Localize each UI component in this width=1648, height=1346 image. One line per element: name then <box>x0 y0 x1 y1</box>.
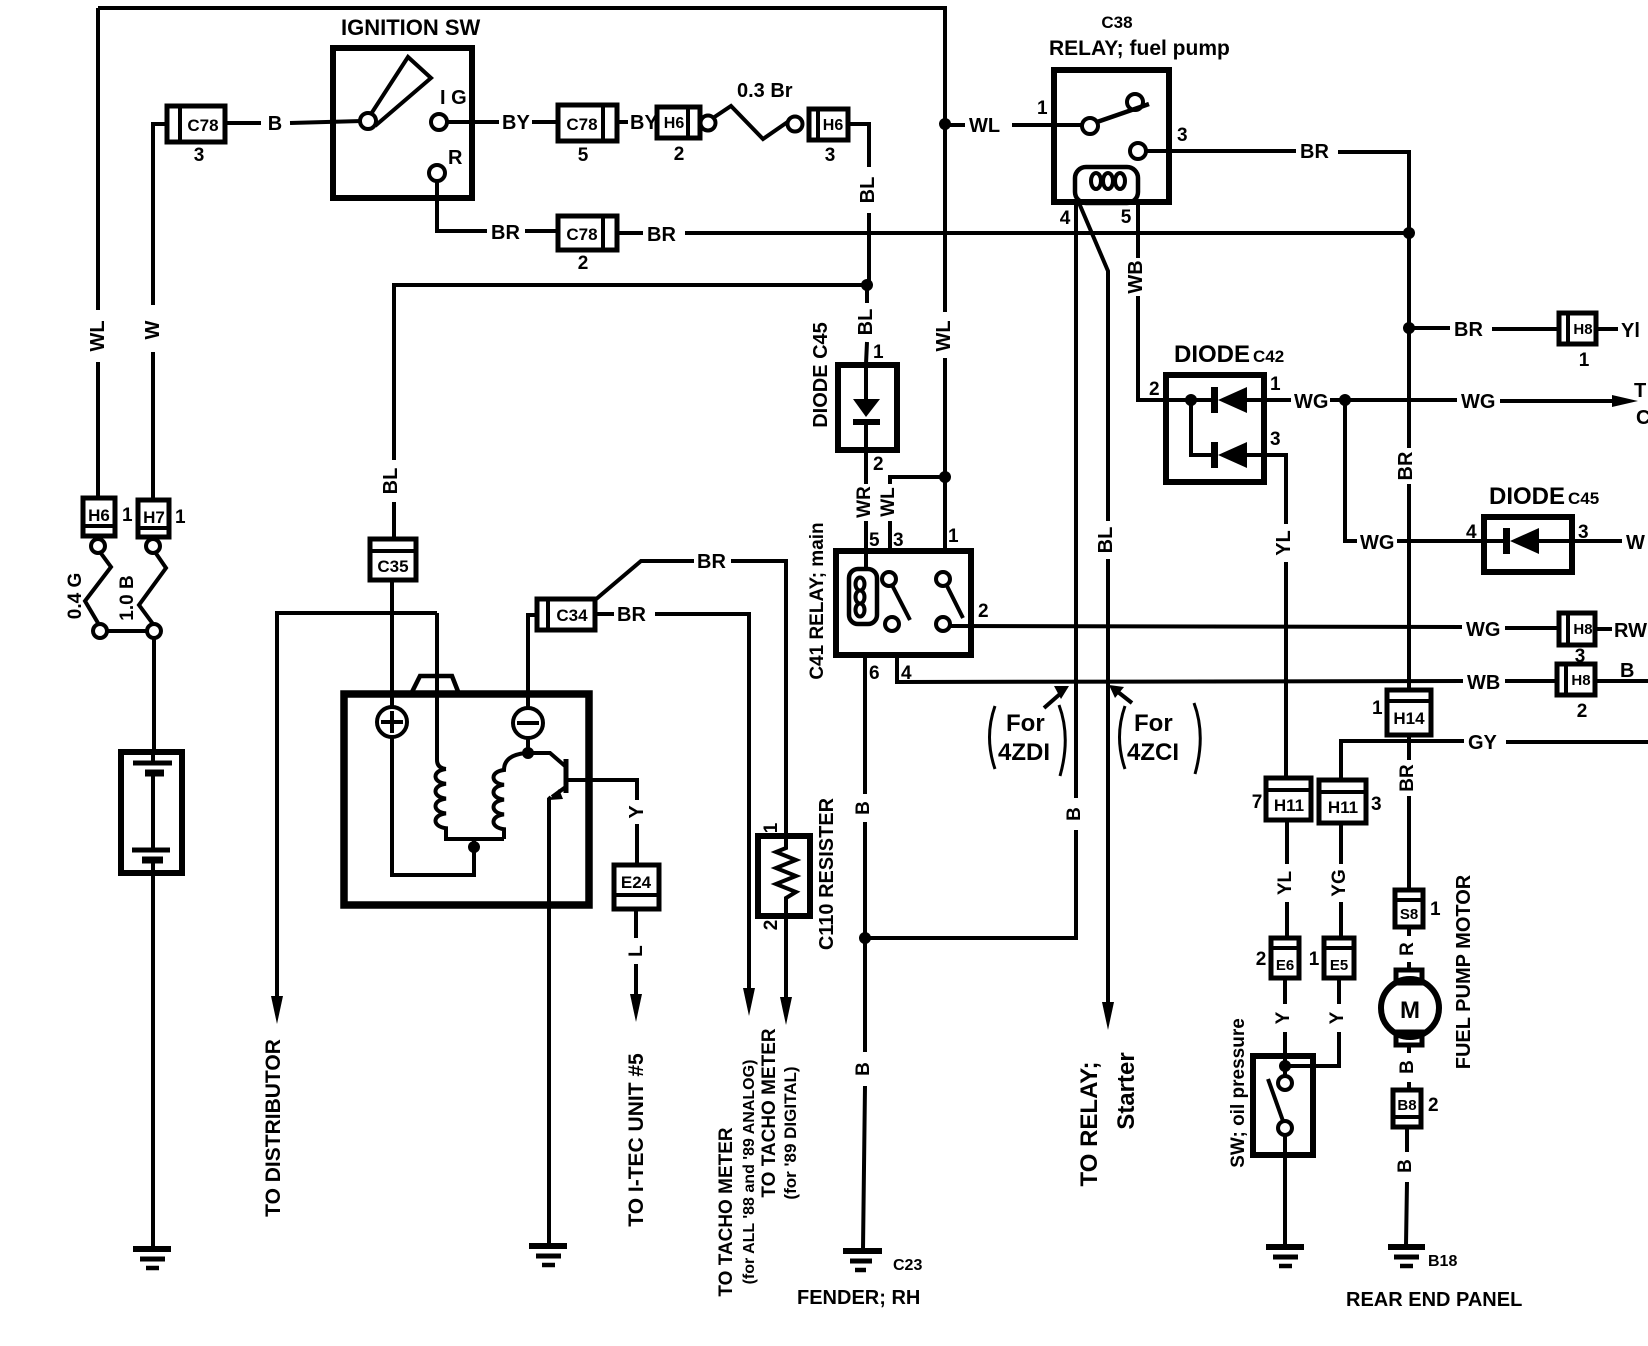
svg-text:1: 1 <box>873 342 884 363</box>
wire WG from C42 pin 1 <box>1264 398 1345 402</box>
pin 6 label of C41 <box>869 663 880 684</box>
diode symbol (cathode down) <box>853 365 880 450</box>
svg-text:1: 1 <box>175 507 186 528</box>
ignition switch title <box>341 15 481 40</box>
junction coil centre tap <box>468 841 480 853</box>
svg-text:3: 3 <box>194 145 205 166</box>
junction B with 4ZDI branch <box>859 932 871 944</box>
svg-text:E24: E24 <box>621 873 652 892</box>
wire from R contact down to BR row <box>437 181 487 231</box>
connector H6 (left, pin 1) <box>83 498 115 536</box>
svg-text:1.0 B: 1.0 B <box>117 575 138 620</box>
svg-text:3: 3 <box>1270 429 1281 450</box>
label Y <box>1327 1011 1348 1024</box>
label BY <box>502 112 530 134</box>
svg-text:C42: C42 <box>1253 347 1284 366</box>
relay C38 coil <box>1075 167 1138 203</box>
label BL <box>855 309 877 336</box>
svg-text:C78: C78 <box>566 115 597 134</box>
svg-text:B8: B8 <box>1397 1097 1416 1114</box>
svg-text:FENDER; RH: FENDER; RH <box>797 1287 920 1309</box>
label R <box>448 147 463 169</box>
label YL <box>1275 870 1296 895</box>
wire to distributor <box>277 613 437 996</box>
svg-text:WB: WB <box>1125 260 1147 293</box>
svg-text:R: R <box>448 147 463 169</box>
label B <box>268 113 282 135</box>
svg-text:YL: YL <box>1273 530 1295 556</box>
svg-text:YL: YL <box>1275 870 1296 895</box>
label 0.3 Br <box>737 80 793 102</box>
ignition switch IG contact <box>431 114 472 130</box>
relay C38 pin 3 contact <box>1130 143 1146 159</box>
wire RW cut at page edge <box>1595 620 1647 642</box>
label C110 RESISTER <box>816 797 838 950</box>
terminal circle right of fusible link <box>788 117 803 132</box>
connector H11 pin 7 <box>1266 778 1311 820</box>
wire WL left vertical <box>96 8 100 497</box>
fusible link 0.4 G zigzag <box>85 552 111 623</box>
pin 1 label <box>873 342 884 363</box>
wire B cut at page edge <box>1595 660 1648 682</box>
svg-text:1: 1 <box>1579 350 1590 371</box>
wire BL continues to diode <box>866 285 867 364</box>
pin 1 label of C110 <box>761 822 782 833</box>
connector H6 pin 2 <box>657 107 700 138</box>
ground C23 (fender) <box>843 1251 882 1270</box>
wire emitter to ground <box>549 797 551 1245</box>
svg-text:7: 7 <box>1252 792 1263 813</box>
svg-text:B: B <box>1397 1060 1418 1074</box>
svg-text:W: W <box>1626 532 1645 554</box>
primary coil winding <box>436 769 505 839</box>
svg-text:1: 1 <box>761 822 782 833</box>
connector E24 <box>614 865 659 909</box>
svg-text:Y: Y <box>1327 1011 1348 1024</box>
svg-text:TO RELAY;: TO RELAY; <box>1076 1062 1103 1187</box>
svg-text:H11: H11 <box>1328 798 1358 817</box>
svg-text:BL: BL <box>857 177 879 204</box>
label B <box>1064 807 1085 821</box>
wire to battery <box>152 638 156 752</box>
pin 1 label of H6 <box>122 505 133 526</box>
terminal circle below H6 <box>91 539 105 553</box>
svg-text:2: 2 <box>674 144 685 165</box>
wire WR to C41 pin 5 <box>864 450 868 569</box>
label IG <box>440 87 467 109</box>
label REAR END PANEL <box>1346 1289 1522 1311</box>
svg-text:C35: C35 <box>377 557 408 576</box>
ignition switch pivot contact <box>360 113 376 129</box>
label BR <box>647 224 676 246</box>
svg-text:1: 1 <box>1270 374 1281 395</box>
svg-text:For: For <box>1006 710 1045 737</box>
svg-text:L: L <box>626 945 647 957</box>
label C23 <box>893 1257 922 1274</box>
wire B from C38 pin 4 <box>865 203 1076 938</box>
svg-text:B18: B18 <box>1428 1253 1457 1270</box>
label WG <box>1294 391 1328 413</box>
wire collector out to Y <box>567 780 637 800</box>
label WL <box>878 487 899 517</box>
label W <box>142 320 164 339</box>
label WG <box>1466 619 1500 641</box>
wire BL horizontal branch <box>394 285 867 539</box>
svg-text:B: B <box>853 801 874 815</box>
svg-text:R: R <box>1397 942 1418 956</box>
connector C78 pin 2 <box>558 216 617 250</box>
label B18 <box>1428 1253 1457 1270</box>
svg-text:H14: H14 <box>1393 709 1425 728</box>
pin 1 label of H8 <box>1579 350 1590 371</box>
wire Y to E24 <box>635 824 639 865</box>
wire B from motor to B8 <box>1407 1045 1411 1090</box>
label TO TACHO METER (analog) <box>716 1127 737 1297</box>
minus terminal <box>513 708 543 738</box>
svg-text:BR: BR <box>491 222 520 244</box>
label Y <box>1273 1011 1294 1024</box>
svg-text:3: 3 <box>1177 125 1188 146</box>
wire base node to transistor <box>528 753 565 766</box>
pin 2 label of H8 <box>1577 701 1588 722</box>
svg-text:5: 5 <box>869 530 880 551</box>
label GY <box>1468 732 1498 754</box>
connector B8 <box>1393 1090 1421 1127</box>
wire Y from E5 to switch <box>1285 978 1339 1066</box>
svg-text:C34: C34 <box>556 606 588 625</box>
pin 2 label of C41 <box>978 601 989 622</box>
wire WG from C41 pin 2 to H8-3 <box>950 626 1559 628</box>
svg-text:W: W <box>142 320 164 339</box>
wire minus terminal to base junction <box>526 738 530 753</box>
relay C38 contact arm <box>1082 94 1149 134</box>
diode C42 lower (pin 2 to 3) <box>1191 400 1264 468</box>
wire joining the two link terminals <box>107 629 147 633</box>
wire C110 to digital tacho arrow <box>780 916 792 1025</box>
ignition switch box <box>333 48 472 198</box>
ignition switch key wedge <box>371 57 431 126</box>
label WG <box>1360 532 1394 554</box>
label BR <box>617 604 646 626</box>
pin 5 label of C38 <box>1121 207 1132 228</box>
svg-text:IGNITION SW: IGNITION SW <box>341 15 481 40</box>
pin 3 label of H8 <box>1575 646 1586 667</box>
junction BL branch <box>861 279 873 291</box>
pin 2 label of H6 <box>674 144 685 165</box>
svg-text:DIODE: DIODE <box>1489 483 1565 510</box>
fusible link 0.3 Br zigzag <box>713 106 789 139</box>
svg-text:Yl: Yl <box>1621 320 1640 342</box>
svg-text:E6: E6 <box>1276 957 1294 974</box>
connector C78 pin 3 <box>167 106 225 142</box>
secondary coil winding <box>494 753 527 839</box>
wire BR long line to right <box>617 231 1409 235</box>
svg-text:C110 RESISTER: C110 RESISTER <box>816 797 838 950</box>
label R <box>1397 942 1418 956</box>
svg-text:B: B <box>268 113 282 135</box>
label B <box>1395 1159 1416 1173</box>
svg-text:BY: BY <box>502 112 530 134</box>
label WL <box>969 115 1000 137</box>
svg-text:2: 2 <box>1428 1095 1439 1116</box>
svg-text:WG: WG <box>1294 391 1328 413</box>
pin 1 label of C41 <box>948 526 959 547</box>
svg-text:H7: H7 <box>143 508 165 527</box>
annotation For 4ZDI <box>990 686 1070 776</box>
svg-text:H8: H8 <box>1573 321 1592 338</box>
relay C41 contact B <box>936 572 963 631</box>
pin 1 label of C38 <box>1037 98 1048 119</box>
wire YL <box>1264 455 1286 778</box>
wire WL into C38 pin 1 <box>945 123 1082 127</box>
svg-text:SW; oil pressure: SW; oil pressure <box>1228 1018 1249 1168</box>
svg-text:2: 2 <box>578 253 589 274</box>
label TO DISTRIBUTOR <box>262 1039 285 1217</box>
wire BL diagonal and down <box>1079 203 1108 1002</box>
svg-text:4: 4 <box>1466 522 1477 543</box>
label BR vertical <box>1395 451 1417 480</box>
label WL <box>87 320 109 351</box>
ignition switch R contact <box>429 165 445 181</box>
svg-text:2: 2 <box>1149 379 1160 400</box>
svg-text:WL: WL <box>933 320 955 351</box>
svg-text:Starter: Starter <box>1113 1052 1140 1129</box>
pin 3 label of C38 <box>1177 125 1188 146</box>
svg-text:(for '89 DIGITAL): (for '89 DIGITAL) <box>781 1066 800 1199</box>
igniter box top bump <box>411 676 459 694</box>
svg-text:(for ALL '88 and '89 ANALOG): (for ALL '88 and '89 ANALOG) <box>741 1060 758 1285</box>
wire from plus terminal down and to coil centre tap <box>392 737 474 875</box>
junction WL at pin 3 branch <box>939 471 951 483</box>
connector C34 <box>537 599 595 630</box>
label B <box>1397 1060 1418 1074</box>
diode symbol C45 right <box>1484 528 1572 554</box>
wire WG down branch to diode C45 <box>1345 400 1484 541</box>
label (for ALL '88 and '89 ANALOG) <box>741 1060 758 1285</box>
wire battery to ground <box>151 874 155 1247</box>
label cut text at page edge <box>1634 380 1648 429</box>
svg-text:WL: WL <box>87 320 109 351</box>
svg-text:B: B <box>1620 660 1634 682</box>
wire W vertical from C78 to H7 <box>153 124 167 500</box>
svg-text:BR: BR <box>1395 451 1417 480</box>
svg-text:2: 2 <box>873 454 884 475</box>
label B <box>853 801 874 815</box>
wire BY from C78-5 to H6-2 <box>617 120 628 124</box>
connector H6 pin 3 <box>809 109 848 140</box>
terminal circle above link joint <box>93 624 107 638</box>
ground (igniter emitter) <box>529 1246 567 1265</box>
wire YG from H11-3 to E5 <box>1339 823 1343 938</box>
svg-text:Y: Y <box>626 805 648 819</box>
label C38 <box>1101 13 1132 32</box>
pin 2 label <box>873 454 884 475</box>
svg-text:H8: H8 <box>1571 672 1590 689</box>
svg-text:C78: C78 <box>566 225 597 244</box>
junction Y at switch <box>1279 1060 1291 1072</box>
wire B from C41 pin 6 <box>863 655 865 1249</box>
label BY <box>630 112 658 134</box>
label BL <box>857 177 879 204</box>
ground B18 (rear end panel) <box>1388 1247 1425 1266</box>
label DIODE C45 (left, rotated) <box>810 322 832 428</box>
wire BR branch to H8-1 <box>1409 328 1559 329</box>
svg-text:4: 4 <box>1060 208 1071 229</box>
svg-text:C41 RELAY; main: C41 RELAY; main <box>807 522 828 679</box>
svg-text:BL: BL <box>380 468 402 495</box>
label SW; oil pressure <box>1228 1018 1249 1168</box>
wire WL branch to C41 pin 3 <box>890 477 945 551</box>
svg-text:C: C <box>1636 407 1648 429</box>
svg-text:TO I-TEC UNIT #5: TO I-TEC UNIT #5 <box>625 1053 648 1227</box>
wire WG to right edge with arrow <box>1345 395 1638 407</box>
svg-text:DIODE: DIODE <box>1174 341 1250 368</box>
svg-text:1: 1 <box>1309 949 1320 970</box>
wire R from S8 to motor <box>1407 927 1411 970</box>
pin 3 label of C45 <box>1578 522 1589 543</box>
pin 3 label of H11 <box>1371 794 1382 815</box>
pin 5 label of C78 <box>578 145 589 166</box>
svg-text:C45: C45 <box>1568 489 1599 508</box>
terminal circle left of fusible link <box>701 116 716 131</box>
connector H8 pin 1 <box>1559 313 1596 344</box>
svg-text:I G: I G <box>440 87 467 109</box>
svg-text:B: B <box>1395 1159 1416 1173</box>
svg-text:REAR END PANEL: REAR END PANEL <box>1346 1289 1522 1311</box>
wire E24 down <box>634 909 638 994</box>
svg-text:WG: WG <box>1461 391 1495 413</box>
connector H8 pin 3 <box>1559 613 1595 645</box>
relay C38 box <box>1054 70 1169 202</box>
wire to Yl (cut at page edge) <box>1596 320 1640 342</box>
svg-text:For: For <box>1134 710 1173 737</box>
svg-text:BY: BY <box>630 112 658 134</box>
svg-text:1: 1 <box>948 526 959 547</box>
connector H7 (pin 1) <box>138 500 169 537</box>
label Y <box>626 805 648 819</box>
wire BY from IG to C78-5 <box>472 120 557 124</box>
svg-text:WL: WL <box>878 487 899 517</box>
label YL <box>1273 530 1295 556</box>
pin 1 label of E5 <box>1309 949 1320 970</box>
wire BR from C34 right side <box>595 614 749 995</box>
svg-text:3: 3 <box>1371 794 1382 815</box>
svg-text:5: 5 <box>578 145 589 166</box>
pin 1 label of S8 <box>1430 899 1441 920</box>
wire C35 to plus terminal <box>390 580 394 708</box>
terminal circle above battery wire <box>147 624 161 638</box>
svg-text:3: 3 <box>825 145 836 166</box>
svg-text:WB: WB <box>1467 672 1500 694</box>
svg-text:WL: WL <box>969 115 1000 137</box>
junction BR at H8-1 branch <box>1403 322 1415 334</box>
label DIODE C42 <box>1174 341 1284 368</box>
label (for '89 DIGITAL) <box>781 1066 800 1199</box>
label YG <box>1329 869 1350 896</box>
pin 3 label of C78 <box>194 145 205 166</box>
svg-text:1: 1 <box>122 505 133 526</box>
ground (battery) <box>133 1249 171 1268</box>
label C41 RELAY; main <box>807 522 828 679</box>
junction WG <box>1339 394 1351 406</box>
wire GY row <box>1341 741 1648 780</box>
pin 2 label of C42 <box>1149 379 1160 400</box>
label TO RELAY; Starter <box>1076 1052 1140 1186</box>
svg-text:WG: WG <box>1360 532 1394 554</box>
label RELAY; fuel pump <box>1049 37 1230 60</box>
pin 4 label of C38 <box>1060 208 1071 229</box>
svg-text:RELAY; fuel pump: RELAY; fuel pump <box>1049 37 1230 60</box>
connector C78 pin 5 <box>558 105 617 141</box>
svg-text:2: 2 <box>1256 949 1267 970</box>
svg-text:B: B <box>1064 807 1085 821</box>
svg-text:BR: BR <box>647 224 676 246</box>
label WL <box>933 320 955 351</box>
wire BR from H14 to S8 <box>1407 735 1411 890</box>
label DIODE C45 (right) <box>1489 483 1599 510</box>
label BR <box>1300 141 1329 163</box>
wire WB from C41 pin 4 to H8-2 <box>897 655 1557 682</box>
svg-text:5: 5 <box>1121 207 1132 228</box>
connector S8 <box>1395 890 1423 927</box>
svg-text:BR: BR <box>1300 141 1329 163</box>
diode box C45 right <box>1484 517 1572 572</box>
svg-text:4ZDI: 4ZDI <box>998 739 1050 766</box>
wire BL from H6-3 down <box>848 124 869 282</box>
ground (oil pressure switch) <box>1266 1247 1304 1266</box>
wire WB <box>1138 203 1166 400</box>
svg-text:WR: WR <box>854 486 875 518</box>
svg-text:FUEL PUMP MOTOR: FUEL PUMP MOTOR <box>1453 874 1475 1069</box>
svg-text:1: 1 <box>1430 899 1441 920</box>
relay C41 contact A <box>882 572 910 631</box>
pin 3 label of C41 <box>893 530 904 551</box>
svg-text:E5: E5 <box>1330 957 1348 974</box>
terminal circle below H7 <box>146 539 160 553</box>
svg-text:H11: H11 <box>1274 796 1304 815</box>
label BR <box>1397 764 1418 792</box>
label BL <box>380 468 402 495</box>
junction BR at BR bus <box>1403 227 1415 239</box>
pin 3 label of H6 <box>825 145 836 166</box>
junction inside C42 <box>1166 394 1212 406</box>
svg-text:0.4 G: 0.4 G <box>65 573 86 619</box>
wire YL from H11-7 to E6 <box>1285 820 1289 938</box>
label L <box>626 945 647 957</box>
label BR <box>1454 319 1483 341</box>
wire WG cut at page edge <box>1572 532 1645 554</box>
label WR <box>854 486 875 518</box>
label FENDER; RH <box>797 1287 920 1309</box>
oil pressure switch contacts <box>1268 1066 1292 1245</box>
label BR <box>697 551 726 573</box>
svg-text:S8: S8 <box>1400 906 1418 923</box>
oil pressure switch box <box>1253 1056 1313 1155</box>
svg-text:C38: C38 <box>1101 13 1132 32</box>
svg-text:4ZCI: 4ZCI <box>1127 739 1179 766</box>
relay C41 coil <box>849 569 877 624</box>
svg-text:H6: H6 <box>823 117 844 134</box>
wire C34 down to minus terminal <box>528 615 537 708</box>
svg-text:M: M <box>1400 997 1420 1024</box>
svg-text:Y: Y <box>1273 1011 1294 1024</box>
fuel pump motor M <box>1381 970 1439 1045</box>
connector H14 <box>1387 690 1431 735</box>
svg-text:2: 2 <box>978 601 989 622</box>
label B <box>853 1062 874 1076</box>
junction WL to C38 <box>939 118 951 130</box>
resistor C110 <box>758 836 810 916</box>
